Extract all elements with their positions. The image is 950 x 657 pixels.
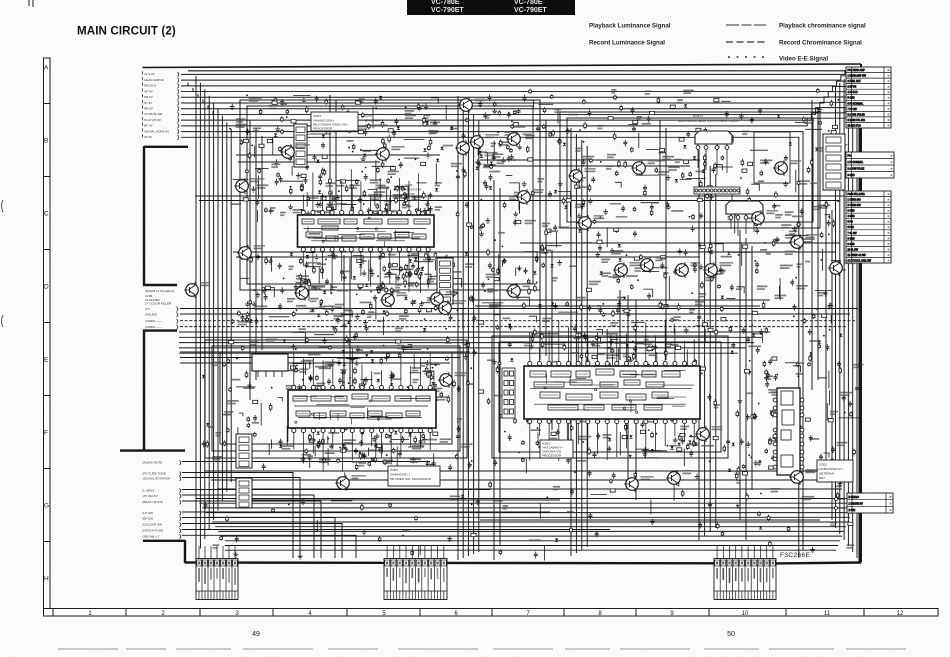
schematic outer border top edge	[143, 64, 862, 68]
transistor Q10	[577, 215, 604, 231]
component cluster: IC201 top pin row parts (resistors/capacitors/labels)	[300, 185, 442, 229]
svg-text:VHiBA7007EYV/-): VHiBA7007EYV/-)	[819, 467, 843, 471]
svg-text:VC-790ET: VC-790ET	[431, 7, 464, 14]
svg-text:LF COLOR KILLER: LF COLOR KILLER	[145, 302, 172, 306]
board edge connector CN2	[384, 546, 447, 600]
svg-text:9 GND: 9 GND	[848, 244, 855, 246]
legend sample: playback chrominance line	[726, 24, 766, 26]
filter block center (buffer array)	[437, 258, 453, 304]
svg-text:11 SHEW +H SW: 11 SHEW +H SW	[848, 255, 867, 257]
wire loop ring around U501 stage	[492, 336, 728, 458]
svg-text:MAIN CIRCUIT (2): MAIN CIRCUIT (2)	[77, 25, 176, 38]
transistor Q18	[184, 282, 210, 298]
wire loop around U513 stage	[754, 132, 790, 183]
transistor Q13	[237, 245, 265, 261]
svg-text:2SA1037AK: 2SA1037AK	[405, 188, 421, 192]
svg-text:(AT 33A 5V: (AT 33A 5V	[143, 494, 158, 498]
transistor Q24	[624, 476, 654, 492]
IC U201 label box	[311, 112, 358, 131]
transistor Q5	[469, 134, 499, 150]
pin table: chroma connector	[846, 191, 891, 263]
connector header block left-mid	[236, 434, 252, 508]
svg-text:PG: PG	[848, 156, 852, 158]
svg-text:E: E	[44, 357, 49, 364]
svg-text:Playback Luminance Signal: Playback Luminance Signal	[589, 23, 671, 30]
component cluster: IC401 top pin row parts (resistors/capacitors/labels)	[290, 358, 440, 394]
ceramic filter tap row	[694, 187, 740, 194]
op-amp IC U201 recording video signal processor	[298, 169, 435, 292]
svg-text:H: H	[44, 576, 49, 583]
net stub to bottom table	[835, 498, 846, 510]
trap filter T401	[252, 354, 288, 377]
svg-text:9 MAIN CTL SIG: 9 MAIN CTL SIG	[848, 119, 866, 122]
transistor Q30	[828, 260, 859, 276]
svg-text:6 FG1: 6 FG1	[848, 227, 855, 229]
svg-text:3 GND: 3 GND	[848, 175, 855, 177]
wire loop ring around U201 stage	[240, 100, 540, 290]
transistor Q15	[639, 257, 667, 273]
wire bus: center vertical trunks	[458, 96, 716, 560]
svg-text:HEAD AMP 9V: HEAD AMP 9V	[144, 78, 164, 82]
svg-text:NTSC HDRS 5W: NTSC HDRS 5W	[365, 123, 388, 127]
op-amp IC U401 playback video signal processor	[288, 348, 436, 472]
component cluster: IC501 top pin row parts (resistors/capacitors/labels)	[529, 333, 681, 376]
transistor Q8	[568, 168, 596, 184]
component cluster: playback video stage (resistors/capacitors/labels)	[202, 332, 484, 471]
svg-text:11: 11	[824, 611, 831, 617]
svg-text:ETC144EX: ETC144EX	[365, 119, 380, 123]
svg-text:7 SL SW: 7 SL SW	[848, 233, 858, 235]
svg-text:4 PB FLU: 4 PB FLU	[848, 92, 858, 94]
svg-text:PG/N FUL DATA: PG/N FUL DATA	[848, 193, 866, 196]
svg-text:PROCESSOR: PROCESSOR	[313, 127, 333, 131]
svg-text:IC401 :: IC401 :	[390, 468, 400, 472]
left grid ruler A-H	[44, 58, 51, 611]
component cluster: left mid stage (resistors/capacitors/labels)	[231, 252, 461, 335]
filter block upper mid	[294, 124, 307, 167]
schematic outer border right edge	[860, 64, 862, 563]
right border inter-table stubs	[859, 128, 861, 562]
input connector labels group 2 (LF color killer)	[145, 289, 178, 330]
svg-text:Record Luminance Signal: Record Luminance Signal	[589, 40, 665, 47]
svg-text:12: 12	[897, 611, 904, 617]
svg-text:(VIDEO ——: (VIDEO ——	[145, 325, 162, 329]
component cluster: chroma processor stage (resistors/capacitors/labels)	[487, 332, 726, 473]
svg-text:10 SL SW: 10 SL SW	[848, 249, 859, 251]
svg-text:BF 9V: BF 9V	[144, 124, 152, 128]
wire bus: intermediate horizontal links	[180, 155, 858, 520]
schematic outer border left edge segments with connector notches	[120, 146, 188, 563]
transistor Q3	[455, 140, 483, 156]
svg-text:49: 49	[252, 631, 260, 638]
svg-text:AT 9.2V: AT 9.2V	[144, 72, 155, 76]
component cluster: right margin column (resistors/capacitors/labels)	[772, 88, 851, 335]
svg-text:1 PB NORMAL: 1 PB NORMAL	[848, 161, 864, 164]
svg-text:(SECAM L-T: (SECAM L-T	[143, 534, 160, 538]
transistor Q12	[789, 234, 819, 250]
legend sample: record chrominance line	[726, 41, 765, 43]
pin header array left of U501	[502, 368, 515, 418]
svg-text:REC/E-E: REC/E-E	[144, 84, 156, 88]
svg-text:1 REAR AMP SW: 1 REAR AMP SW	[848, 75, 867, 78]
svg-text:Playback chrominance signal: Playback chrominance signal	[779, 23, 866, 30]
svg-text:2 SHE: 2 SHE	[849, 510, 856, 512]
wire bus: bottom horizontal return lines	[196, 471, 858, 550]
svg-text:8 A. SW. PULSE: 8 A. SW. PULSE	[848, 113, 866, 116]
schematic outer border bottom edge	[185, 561, 861, 564]
transistor Q14	[613, 262, 644, 278]
svg-text:6 PB NORMAL: 6 PB NORMAL	[848, 102, 864, 105]
transistor Q1	[280, 144, 310, 160]
svg-text:(TV: (TV	[145, 307, 150, 311]
svg-text:RESONANCE HEAD 4.43 (r) 2: RESONANCE HEAD 4.43 (r) 20MHz / DELAY	[678, 119, 739, 123]
svg-text:B: B	[44, 138, 48, 145]
svg-text:Video E-E Signal: Video E-E Signal	[779, 56, 828, 63]
svg-text:CONT/SL-EE: CONT/SL-EE	[144, 112, 162, 116]
component cluster: bottom bus area (resistors/capacitors/labels)	[204, 470, 855, 560]
IC U502 killer detector block	[773, 388, 804, 475]
svg-text:IC201 :: IC201 :	[313, 114, 323, 118]
svg-text:(VIDEO ——: (VIDEO ——	[145, 319, 162, 323]
wire bus: extra center verticals	[250, 95, 832, 560]
wire bus: left vertical trunk lines	[196, 76, 231, 558]
svg-text:RE 9V: RE 9V	[144, 107, 153, 111]
transistor Q32	[438, 372, 467, 388]
svg-text:(AUDIO MUTE: (AUDIO MUTE	[143, 461, 163, 465]
IC U501 label box	[540, 440, 573, 458]
svg-text:DET: DET	[819, 476, 825, 480]
IC U201 part number text	[365, 114, 388, 127]
svg-text:A: A	[44, 65, 49, 72]
svg-text:IC502: IC502	[819, 463, 827, 467]
svg-text:PLAY (P) 9V: PLAY (P) 9V	[144, 118, 161, 122]
transistor Q27	[695, 426, 722, 442]
component cluster: center top patch (resistors/capacitors/labels)	[478, 95, 534, 165]
svg-text:C: C	[44, 211, 49, 218]
transistor Q23	[437, 300, 466, 316]
svg-text:G: G	[44, 503, 49, 510]
svg-text:10 REC FLU: 10 REC FLU	[848, 125, 862, 127]
transistor Q29	[458, 97, 485, 113]
svg-text:5 GND: 5 GND	[848, 98, 855, 100]
wire bus: group3 label wires to bottom connectors	[182, 462, 610, 559]
model label bar VC-780E / VC-790ET	[407, 0, 575, 15]
input connector labels group 3 (audio mute / picture tone)	[143, 461, 181, 539]
transistor Q11	[750, 210, 778, 226]
legend sample: video E-E dotted line	[728, 56, 764, 58]
svg-text:1 CHAR SIG: 1 CHAR SIG	[848, 199, 861, 202]
transistor Q16	[674, 262, 700, 278]
svg-text:F: F	[44, 430, 48, 437]
svg-text:(BACK UP 9T5: (BACK UP 9T5	[143, 500, 163, 504]
svg-text:Record Chrominance Signal: Record Chrominance Signal	[779, 40, 862, 47]
svg-text:(SOUND: (SOUND	[145, 313, 158, 317]
svg-text:2 A. SW PULSE: 2 A. SW PULSE	[848, 168, 865, 171]
wire bus: top horizontal fan-out from input labels	[181, 71, 852, 559]
svg-text:HG 5W: HG 5W	[405, 192, 415, 196]
bottom grid ruler 1-12	[44, 609, 939, 617]
transistor Q28	[335, 475, 366, 491]
transistor Q26	[789, 469, 819, 485]
svg-text:VC-780E: VC-780E	[514, 0, 543, 6]
board edge connector CN3	[714, 546, 776, 600]
bottom scan artifact dashed line	[58, 648, 906, 650]
svg-text:3 RF PB: 3 RF PB	[848, 87, 857, 89]
transistor Q2	[375, 146, 404, 162]
delay line DL202 comb filter	[726, 201, 763, 236]
frame pulse node marker	[423, 122, 440, 127]
svg-text:F3C266E: F3C266E	[780, 552, 811, 559]
component cluster: IC401 bottom pin row parts (resistors/capacitors/labels)	[301, 431, 438, 468]
component cluster: IC501 bottom pin row parts (resistors/capacitors/labels)	[531, 429, 710, 458]
svg-text:3 GND: 3 GND	[848, 211, 855, 213]
transistor Q20	[380, 292, 407, 308]
wire loop ring upper right record stage	[560, 112, 820, 228]
component cluster: killer detect stage (resistors/capacitors/labels)	[726, 333, 863, 500]
pin table: tuner connector bottom	[847, 493, 893, 513]
delay line DL201 burst resonator	[695, 131, 732, 175]
component cluster: upper-right record stage (resistors/capacitors/labels)	[461, 89, 772, 248]
svg-text:PROCESSOR: PROCESSOR	[542, 454, 562, 458]
svg-text:(NORM LF KILLER A): (NORM LF KILLER A)	[145, 289, 174, 293]
svg-text:C207: C207	[365, 114, 373, 118]
component block right column (head amp)	[823, 134, 845, 190]
svg-text:(SIGNAL ROTATION: (SIGNAL ROTATION	[143, 477, 171, 481]
pin table: head amp connector	[846, 67, 891, 128]
svg-text:(EP SW: (EP SW	[143, 517, 154, 521]
transistor Q21	[429, 291, 459, 307]
svg-text:(PICTURE TONE: (PICTURE TONE	[143, 472, 166, 476]
margin registration marks	[2, 0, 34, 327]
svg-text:PG | HEAD AMP: PG | HEAD AMP	[848, 69, 866, 72]
svg-text:VHiMN6342//-): VHiMN6342//-)	[390, 473, 410, 477]
svg-text:(COLOUR SW: (COLOUR SW	[143, 523, 163, 527]
svg-text:4 GND: 4 GND	[848, 216, 855, 218]
svg-text:2 ENVL DET: 2 ENVL DET	[848, 81, 862, 83]
component cluster: center chroma stage (resistors/capacitors/labels)	[463, 239, 771, 341]
IC U502 label box	[817, 460, 853, 482]
svg-text:(LP SW: (LP SW	[143, 511, 153, 515]
transistor Q6	[234, 178, 264, 194]
svg-text:VC-790ET: VC-790ET	[514, 7, 547, 14]
transistor Q17	[703, 262, 733, 278]
svg-text:50: 50	[727, 631, 735, 638]
svg-text:N SERVO: N SERVO	[849, 497, 860, 499]
component cluster: IC201 bottom pin row parts (resistors/capacitors/labels)	[300, 251, 442, 294]
svg-text:10: 10	[742, 611, 749, 617]
svg-text:PB 9V: PB 9V	[144, 95, 153, 99]
IC U401 label box	[388, 466, 440, 486]
svg-text:SP 9V: SP 9V	[144, 89, 152, 93]
svg-text:SIGNAL GDRS 9V: SIGNAL GDRS 9V	[144, 129, 169, 133]
svg-text:7 PB 2W: 7 PB 2W	[848, 109, 858, 111]
wire loop ring around U401 stage	[205, 340, 467, 458]
input connector labels group 1 (power rails)	[143, 71, 179, 140]
svg-text:(L-SENS: (L-SENS	[143, 489, 155, 493]
svg-text:AT 9V: AT 9V	[144, 135, 152, 139]
transistor Q19	[294, 285, 325, 301]
svg-text:(NTSC4.43 SW: (NTSC4.43 SW	[143, 529, 164, 533]
svg-text:D: D	[44, 284, 49, 291]
svg-text:BURST: BURST	[693, 114, 703, 118]
svg-text:METERAAI: METERAAI	[819, 472, 835, 476]
svg-text:5 PG: 5 PG	[848, 222, 853, 224]
op-amp IC U501 chroma signal processor	[524, 320, 700, 461]
transistor Q22	[506, 283, 537, 299]
svg-text:1 KAKUNI SV: 1 KAKUNI SV	[849, 502, 864, 505]
board edge connector CN1	[196, 546, 238, 600]
svg-text:PB VIDEO SIG. PROCESSOR: PB VIDEO SIG. PROCESSOR	[390, 477, 432, 481]
pin table: servo connector	[846, 152, 894, 178]
svg-text:2 CHAR SIG: 2 CHAR SIG	[848, 204, 861, 207]
svg-text:PL 9V: PL 9V	[144, 101, 152, 105]
svg-text:Q206: Q206	[405, 183, 413, 187]
wire bus: right vertical trunk lines	[836, 67, 858, 558]
svg-text:VC-780E: VC-780E	[431, 0, 460, 6]
transistor Q9	[516, 189, 544, 205]
transistor Q4	[506, 131, 534, 147]
transistor Q25	[666, 470, 693, 486]
transistor Q7	[631, 160, 660, 176]
wire bus: middle horizontal band	[179, 332, 770, 363]
component cluster: upper-left luminance stage (resistors/capacitors/labels)	[229, 94, 462, 222]
transistor Q31	[773, 160, 801, 176]
svg-text:8 GND: 8 GND	[848, 238, 855, 240]
